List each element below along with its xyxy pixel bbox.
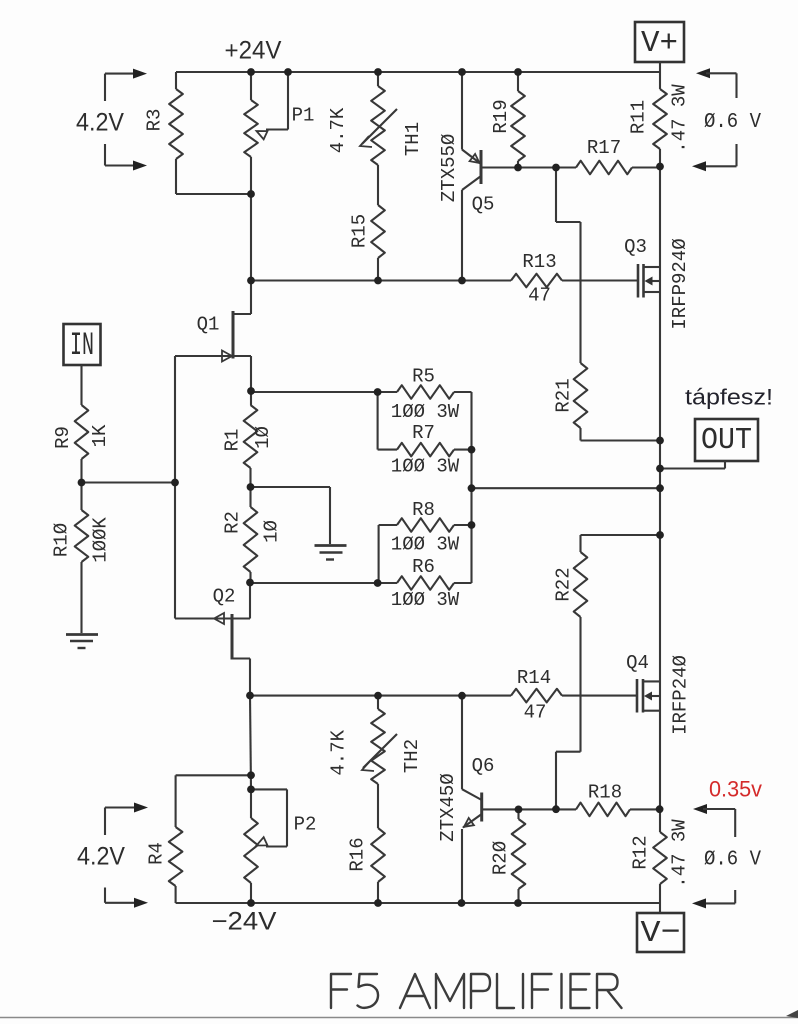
junction dots output node: [468, 437, 664, 539]
svg-text:R12: R12: [630, 835, 652, 869]
wire bottom -24V rail: [176, 902, 660, 904]
potentiometer P2: [244, 789, 287, 903]
label Q4: [626, 652, 649, 674]
svg-text:tápfesz!: tápfesz!: [685, 385, 773, 410]
label R4: [146, 842, 168, 865]
svg-text:R22: R22: [553, 567, 575, 601]
wire top +24V rail: [176, 71, 660, 73]
svg-text:0.35v: 0.35v: [709, 777, 762, 802]
resistor R1 10: [244, 391, 258, 487]
wire Q1 source to R5: [251, 391, 397, 393]
wire V+ to R11: [659, 62, 661, 89]
wire OUT lead: [660, 461, 725, 469]
resistor R15: [371, 205, 385, 281]
svg-text:4.2V: 4.2V: [77, 843, 125, 871]
svg-text:R3: R3: [144, 109, 166, 132]
label Q2: [213, 586, 236, 608]
bottom right mark: [786, 1010, 798, 1018]
svg-text:ZTX45Ø: ZTX45Ø: [437, 773, 459, 841]
wire output to R22: [581, 535, 661, 552]
svg-text:R7: R7: [412, 422, 435, 444]
wire center column P1 to Q1: [250, 194, 252, 314]
label R18: [588, 782, 622, 804]
svg-text:Q2: Q2: [213, 586, 236, 608]
svg-text:R21: R21: [553, 378, 575, 412]
label ZTX550: [438, 134, 460, 202]
svg-text:.47 3W: .47 3W: [669, 819, 691, 888]
label R16: [347, 837, 369, 871]
svg-text:R2: R2: [222, 511, 244, 534]
label +24V: [225, 37, 282, 65]
label ZTX450: [437, 773, 459, 841]
transistor Q6 ZTX450: [462, 696, 482, 903]
label R5: [412, 366, 435, 388]
svg-text:Q1: Q1: [197, 314, 220, 336]
transistor Q3 IRFP9240: [638, 264, 660, 298]
label 47 top: [528, 285, 551, 307]
resistor R8 100 3W: [379, 518, 472, 583]
label R10: [51, 523, 73, 557]
bottom border line: [0, 1017, 798, 1019]
wire input node to gate column: [82, 481, 176, 483]
resistor R16: [371, 828, 385, 903]
label 4.2V top: [76, 109, 124, 137]
svg-text:+24V: +24V: [225, 37, 282, 65]
wire R3 bottom to P1: [176, 193, 251, 195]
resistor R10 100K: [75, 483, 89, 634]
resistor R18: [576, 803, 630, 817]
label Q1: [197, 314, 220, 336]
label R14: [517, 667, 551, 689]
ground mid: [315, 546, 347, 560]
svg-text:Q5: Q5: [472, 194, 495, 216]
svg-text:1ØØK: 1ØØK: [90, 517, 112, 563]
label 47 bottom: [524, 701, 547, 723]
junction dots R17 line: [514, 163, 664, 172]
svg-text:R1: R1: [222, 429, 244, 452]
resistor R5 100 3W: [397, 385, 472, 399]
label 0.6 V top: [704, 111, 761, 134]
OUT terminal: [695, 419, 758, 461]
label R19: [490, 99, 512, 133]
label Q5: [472, 194, 495, 216]
label -24V: [212, 908, 277, 936]
svg-text:R15: R15: [349, 214, 371, 248]
svg-text:IN: IN: [70, 327, 94, 364]
wire output tap: [472, 487, 661, 489]
transistor Q1 JFET: [175, 311, 251, 391]
resistor R6 100 3W: [397, 576, 472, 590]
junction dots lower front end: [246, 521, 475, 700]
label 100 3W R7: [391, 456, 460, 478]
label R2: [222, 511, 244, 534]
svg-text:R19: R19: [490, 99, 512, 133]
junction dots R13 line: [247, 190, 466, 284]
svg-text:V−: V−: [641, 916, 681, 951]
svg-text:R11: R11: [628, 100, 650, 134]
label Q6: [472, 755, 495, 777]
svg-text:1ØØ 3W: 1ØØ 3W: [391, 534, 460, 556]
svg-text:4.7K: 4.7K: [327, 107, 349, 153]
ground under R10: [66, 635, 98, 649]
label 100 3W R5: [391, 401, 460, 423]
label 0.6 V bottom: [704, 848, 761, 871]
svg-text:Q3: Q3: [624, 236, 647, 258]
svg-text:Ø.6 V: Ø.6 V: [704, 111, 761, 134]
svg-text:V+: V+: [641, 26, 678, 61]
svg-text:4.2V: 4.2V: [76, 109, 124, 137]
svg-text:47: 47: [524, 701, 547, 723]
label TH1: [402, 122, 424, 156]
resistor R17: [576, 161, 632, 175]
svg-text:1ØØ 3W: 1ØØ 3W: [391, 589, 460, 611]
label 100 3W R6: [391, 589, 460, 611]
label R11: [628, 100, 650, 134]
wire R22 to R18 node: [556, 752, 581, 810]
label R7: [412, 422, 435, 444]
label R17: [587, 137, 621, 159]
label TH2: [401, 739, 423, 773]
label 10 R1: [252, 426, 274, 449]
annotation 4.2V bracket bottom-left: [105, 803, 148, 908]
svg-text:R2Ø: R2Ø: [490, 841, 512, 875]
label R21: [553, 378, 575, 412]
label 10 R2: [261, 520, 283, 543]
label R15: [349, 214, 371, 248]
junction dots front end: [78, 387, 476, 491]
junction dots bottom rail: [247, 899, 522, 907]
svg-text:Ø.6 V: Ø.6 V: [704, 848, 761, 871]
label 100K: [90, 517, 112, 563]
wire R17-node to R21: [556, 168, 581, 364]
label Q3: [624, 236, 647, 258]
wire R14 to Q4 gate: [562, 695, 637, 697]
svg-text:R13: R13: [522, 251, 556, 273]
label 4.7K bottom: [327, 729, 349, 775]
label R3: [144, 109, 166, 132]
annotation 0.6V bracket top-right: [692, 68, 737, 171]
wire R18 to Q4 source: [630, 808, 660, 810]
svg-text:Q4: Q4: [626, 652, 649, 674]
resistor R4: [169, 775, 183, 903]
wire Q2 drain column to P2: [250, 696, 251, 790]
annotation 0.6V bracket bottom-right: [692, 804, 735, 908]
svg-text:R4: R4: [146, 842, 168, 865]
svg-text:R16: R16: [347, 837, 369, 871]
label R20: [490, 841, 512, 875]
label P2: [294, 814, 317, 836]
wire R21 to output column: [581, 439, 661, 441]
svg-text:R14: R14: [517, 667, 551, 689]
label R1: [222, 429, 244, 452]
resistor R7 100 3W: [378, 392, 472, 456]
wire R13 to Q3 gate: [562, 279, 638, 281]
svg-text:.47 3W: .47 3W: [669, 84, 691, 153]
svg-text:IRFP24Ø: IRFP24Ø: [670, 655, 692, 735]
svg-text:R18: R18: [588, 782, 622, 804]
wire Q5 base to R17 node: [481, 166, 576, 168]
svg-text:ZTX55Ø: ZTX55Ø: [438, 134, 460, 202]
svg-text:R6: R6: [412, 556, 435, 578]
label .47 3W bottom: [669, 819, 691, 888]
svg-text:R1Ø: R1Ø: [51, 523, 73, 557]
V- terminal: [637, 913, 684, 952]
label 0.35v: [709, 777, 762, 802]
wire resistor bank right vertical: [470, 392, 472, 583]
wire Q2 drain to R14: [250, 695, 511, 697]
svg-text:R9: R9: [52, 426, 74, 449]
resistor R2 10: [244, 487, 258, 583]
label 4.2V bottom: [77, 843, 125, 871]
wire P2 node to R4: [176, 774, 251, 776]
resistor R20: [512, 809, 526, 903]
junction dots R18 line: [515, 805, 664, 813]
label R9: [52, 426, 74, 449]
IN terminal: [64, 324, 101, 365]
svg-text:IRFP924Ø: IRFP924Ø: [669, 238, 691, 329]
svg-text:P2: P2: [294, 814, 317, 836]
label 4.7K top: [327, 107, 349, 153]
wire Q6 base to R18: [482, 808, 576, 810]
svg-text:R5: R5: [412, 366, 435, 388]
annotation 4.2V bracket top-left: [105, 69, 147, 171]
label R8: [412, 499, 435, 521]
svg-text:R8: R8: [412, 499, 435, 521]
svg-text:TH1: TH1: [402, 122, 424, 156]
label P1: [292, 105, 315, 127]
label 1K: [89, 424, 111, 447]
wire R17 to R11 node: [632, 166, 660, 168]
thermistor TH2 4.7K: [362, 696, 397, 828]
label tapfesz: [685, 385, 773, 410]
resistor R21: [574, 363, 588, 441]
wire output column: [659, 167, 661, 833]
label IRFP240: [670, 655, 692, 735]
svg-text:Q6: Q6: [472, 755, 495, 777]
svg-text:47: 47: [528, 285, 551, 307]
resistor R9 1K: [75, 405, 89, 483]
resistor R3: [169, 72, 183, 194]
svg-text:4.7K: 4.7K: [327, 729, 349, 775]
svg-text:1Ø: 1Ø: [252, 426, 274, 449]
svg-text:1ØØ 3W: 1ØØ 3W: [391, 456, 460, 478]
wire R1-R2 node to ground: [251, 487, 331, 544]
junction dots top rail: [247, 68, 522, 76]
svg-text:OUT: OUT: [701, 423, 752, 458]
wire front-end to R13: [251, 279, 511, 281]
resistor R22: [574, 552, 588, 752]
svg-text:R17: R17: [587, 137, 621, 159]
transistor Q4 IRFP240: [637, 679, 660, 713]
svg-text:−24V: −24V: [212, 908, 277, 936]
title F5 AMPLIFIER: [331, 974, 622, 1008]
label R13: [522, 251, 556, 273]
resistor R12 .47 3W: [653, 832, 667, 913]
transistor Q5 ZTX550: [462, 72, 481, 281]
svg-text:1ØØ 3W: 1ØØ 3W: [391, 401, 460, 423]
label 100 3W R8: [391, 534, 460, 556]
svg-text:1Ø: 1Ø: [261, 520, 283, 543]
label R6: [412, 556, 435, 578]
resistor R13 47: [511, 274, 562, 288]
wire Q2 source to R6: [250, 582, 397, 584]
thermistor TH1 4.7K: [360, 72, 397, 205]
svg-text:1K: 1K: [89, 424, 111, 447]
label R22: [553, 567, 575, 601]
label R12: [630, 835, 652, 869]
wire IN to R9: [80, 365, 82, 405]
label .47 3W top: [669, 84, 691, 153]
label IRFP9240: [669, 238, 691, 329]
wire gate column Q1-Q2: [174, 356, 176, 619]
transistor Q2 JFET: [175, 583, 250, 696]
V+ terminal: [635, 22, 684, 62]
resistor R14 47: [511, 689, 562, 703]
svg-text:P1: P1: [292, 105, 315, 127]
svg-text:TH2: TH2: [401, 739, 423, 773]
resistor R11 .47 3W: [653, 89, 667, 167]
potentiometer P1: [244, 72, 288, 194]
junction dots P2 node: [247, 771, 255, 793]
resistor R19: [511, 72, 525, 168]
